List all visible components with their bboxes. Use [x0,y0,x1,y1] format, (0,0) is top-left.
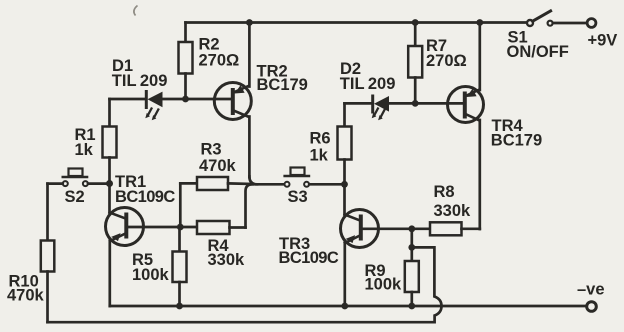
svg-text:BC179: BC179 [257,76,308,94]
svg-text:470k: 470k [199,157,237,175]
switch S1 [527,11,553,26]
transistor TR3 BC109C [341,184,431,306]
resistor R2 270ohm [179,23,193,100]
LED D2 emission arrows [374,109,378,116]
svg-text:TIL 209: TIL 209 [340,75,396,93]
wire -ve rail [110,305,587,308]
svg-text:270Ω: 270Ω [426,52,467,70]
LED D2 TIL209 [345,96,464,120]
svg-text:BC109C: BC109C [115,188,175,206]
svg-text:330k: 330k [208,251,246,269]
node R6 / S3 / TR3 collector [341,181,348,188]
node TR3 emitter on rail [341,303,348,310]
switch S3 push button [285,168,343,187]
terminal -ve [587,302,597,312]
wire TR2 collector to S3 junction [249,177,257,185]
node TR2 emitter to rail [246,19,253,26]
switch S2 push button [48,169,108,187]
LED D1 emission arrows [148,109,152,116]
resistor R5 100k [173,227,187,306]
svg-text:S3: S3 [288,188,308,206]
node R5 bottom on rail [176,303,183,310]
svg-text:R6: R6 [310,130,331,148]
resistor R9 100k [405,229,419,306]
resistor R7 270ohm [408,23,422,104]
node R7 bottom / D2 / TR4 base [412,100,419,107]
print artifact parenthesis [134,6,138,16]
wire R9 node to lower rail with hop over -ve rail [48,247,442,322]
wire S1 to +9V terminal [553,22,587,25]
node R1 / S2 / TR1 collector [106,180,113,187]
terminal +9V [587,19,596,28]
svg-text:BC109C: BC109C [279,249,339,267]
svg-text:1k: 1k [75,141,94,159]
wire top supply rail [186,21,528,24]
svg-text:–ve: –ve [577,281,605,299]
resistor R4 330k [197,184,253,234]
node R9 top / link wire [408,244,415,251]
node R7 top on rail [412,19,419,26]
svg-text:TIL 209: TIL 209 [112,72,168,90]
svg-text:1k: 1k [310,147,329,165]
svg-text:S2: S2 [65,188,85,206]
resistor R8 330k [430,222,480,235]
svg-text:100k: 100k [132,266,170,284]
transistor TR2 BC179 [214,23,251,178]
svg-text:R8: R8 [434,183,455,201]
transistor TR1 BC109C [106,184,198,307]
resistor R10 470k [41,184,55,323]
node R9 bottom on rail [408,303,415,310]
svg-text:BC179: BC179 [491,131,542,149]
transistor TR4 BC179 [448,23,484,230]
svg-text:100k: 100k [365,275,403,293]
resistor R1 1k [103,99,117,184]
node R3 riser / R5 / TR1 base [177,224,184,231]
svg-text:+9V: +9V [588,31,618,49]
LED D1 TIL209 [110,92,232,121]
resistor R3 470k [180,177,250,227]
svg-text:270Ω: 270Ω [199,52,240,70]
node TR4 emitter to rail [476,19,483,26]
resistor R6 1k [338,103,352,184]
svg-text:330k: 330k [434,202,472,220]
node R2 bottom / D1 / TR2 base [182,96,189,103]
svg-text:R3: R3 [201,141,222,159]
node TR3 base / R8 / R9 [408,225,415,232]
svg-text:ON/OFF: ON/OFF [507,43,569,61]
svg-text:470k: 470k [7,287,45,305]
